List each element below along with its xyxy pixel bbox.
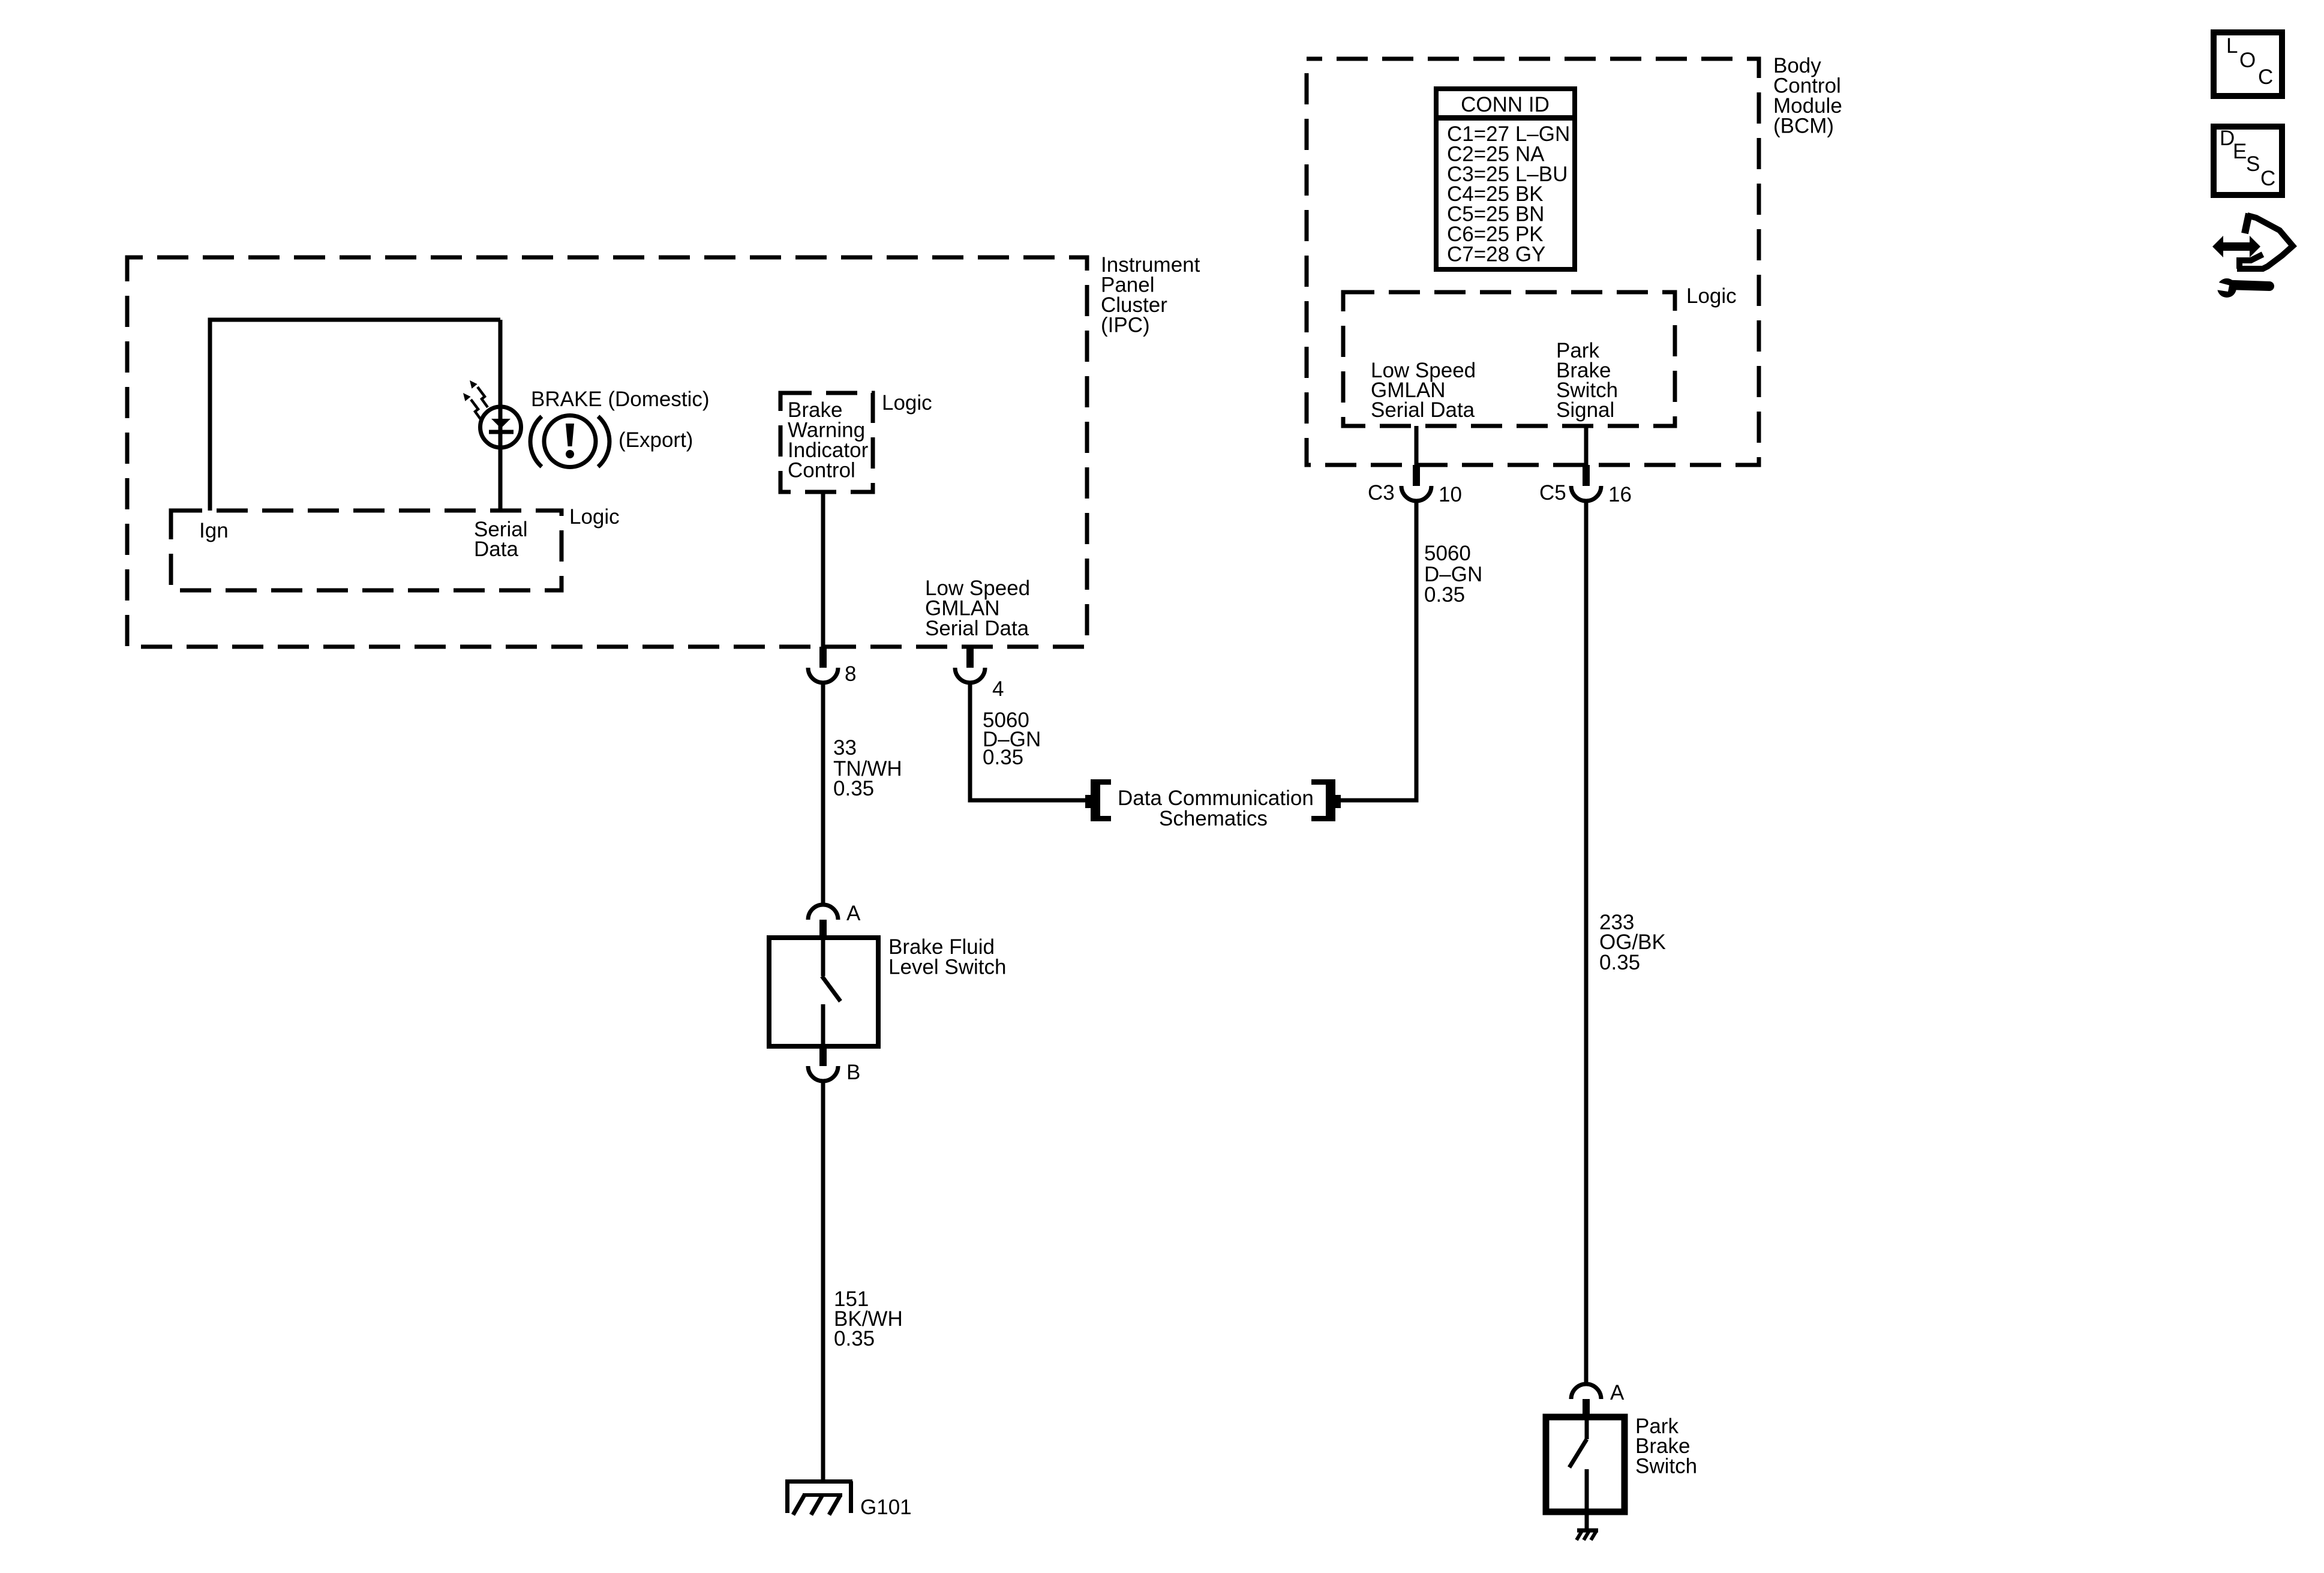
switch S1 contacts and blade xyxy=(821,938,825,976)
DESC legend box xyxy=(2214,127,2282,195)
pin B connector at brake fluid level switch xyxy=(819,1046,827,1066)
legend icon: double-headed arrow xyxy=(2212,236,2260,257)
svg-text:E: E xyxy=(2233,140,2247,163)
svg-text:(IPC): (IPC) xyxy=(1101,314,1150,337)
svg-text:33: 33 xyxy=(833,736,857,760)
module box U2: Body Control Module (dashed outline) xyxy=(1307,59,1759,465)
legend icon: outline arrow pointer xyxy=(2237,214,2293,269)
svg-text:Ign: Ign xyxy=(199,519,229,542)
wire: circuit 5060 D-GN from callout up to BCM pin C3-10 xyxy=(1341,501,1416,803)
ground G101 symbol xyxy=(785,1481,852,1515)
pin C3-10 connector at BCM xyxy=(1413,465,1420,486)
svg-text:O: O xyxy=(2239,49,2256,72)
wire: Ign vertical riser inside IPC xyxy=(208,320,212,511)
switch S1: Brake Fluid Level Switch box xyxy=(769,938,878,1046)
svg-text:C: C xyxy=(2260,167,2275,190)
svg-text:A: A xyxy=(1610,1381,1625,1404)
wire: park brake signal from BCM logic box to pin C5 xyxy=(1584,426,1589,465)
export symbol exclamation bar xyxy=(566,424,574,446)
pin C5-16 connector at BCM xyxy=(1583,465,1590,486)
svg-text:BRAKE (Domestic): BRAKE (Domestic) xyxy=(531,388,710,411)
pin 4 connector at IPC xyxy=(966,647,974,668)
svg-text:Control: Control xyxy=(788,459,855,482)
LED cathode bar xyxy=(489,430,514,434)
export brake symbol: circle with exclamation xyxy=(544,416,596,467)
svg-text:8: 8 xyxy=(845,662,856,686)
svg-text:CONN ID: CONN ID xyxy=(1461,93,1550,116)
svg-text:Logic: Logic xyxy=(882,391,932,415)
wire: horizontal run from Ign riser to BRAKE indicator xyxy=(208,318,501,322)
svg-text:C5: C5 xyxy=(1539,481,1566,505)
svg-text:Level Switch: Level Switch xyxy=(888,956,1006,979)
table header separator xyxy=(1434,115,1577,121)
svg-text:(BCM): (BCM) xyxy=(1773,115,1834,138)
svg-text:10: 10 xyxy=(1439,483,1462,506)
off-page connector left tick xyxy=(1085,795,1091,808)
LOC legend box xyxy=(2214,32,2282,96)
svg-text:Serial Data: Serial Data xyxy=(925,617,1029,640)
wire: circuit 33 TN/WH from pin 8 to brake fluid level switch pin A xyxy=(821,683,825,905)
export symbol right paren arc xyxy=(598,416,609,467)
legend icon: wrench xyxy=(2212,278,2274,298)
off-page connector right bracket xyxy=(1311,779,1335,821)
svg-text:B: B xyxy=(846,1061,860,1084)
svg-text:L: L xyxy=(2226,34,2238,58)
svg-text:Logic: Logic xyxy=(569,505,620,529)
logic box: Brake Warning Indicator Control (dashed) xyxy=(780,393,873,492)
wire: BWIC output down to IPC pin 8 xyxy=(821,492,825,647)
pin A connector at brake fluid level switch xyxy=(808,905,838,920)
module box U1: Instrument Panel Cluster (dashed outline) xyxy=(127,257,1087,647)
switch S2: Park Brake Switch box xyxy=(1546,1417,1625,1512)
export symbol left paren arc xyxy=(530,416,542,467)
svg-text:0.35: 0.35 xyxy=(1599,951,1640,974)
svg-text:Data: Data xyxy=(474,538,518,561)
svg-text:Serial Data: Serial Data xyxy=(1371,398,1475,422)
svg-text:C: C xyxy=(2258,65,2273,89)
wire: circuit 5060 D-GN from pin 4 down and right to data link callout xyxy=(968,683,1086,800)
svg-text:Logic: Logic xyxy=(1686,284,1737,308)
svg-text:4: 4 xyxy=(992,677,1004,701)
export symbol exclamation dot xyxy=(566,450,574,458)
LED light arrow 2 xyxy=(463,393,481,420)
svg-text:0.35: 0.35 xyxy=(1424,583,1465,607)
svg-text:A: A xyxy=(846,902,861,925)
svg-text:C3: C3 xyxy=(1368,481,1395,505)
pin A connector at park brake switch xyxy=(1571,1384,1601,1399)
switch S2 contacts and blade xyxy=(1585,1417,1589,1439)
svg-text:G101: G101 xyxy=(860,1496,912,1519)
wire: circuit 233 OG/BK from BCM pin C5 to park brake switch pin A xyxy=(1584,501,1589,1384)
logic box inside BCM (dashed) xyxy=(1343,292,1675,426)
LED indicator DS1: BRAKE warning lamp circle xyxy=(481,407,521,448)
connector ID table xyxy=(1436,89,1575,269)
svg-text:C7=28 GY: C7=28 GY xyxy=(1447,242,1545,266)
svg-text:Schematics: Schematics xyxy=(1159,807,1268,830)
off-page connector right tick xyxy=(1335,795,1341,808)
svg-text:0.35: 0.35 xyxy=(983,746,1023,769)
wire: BRAKE indicator branch down to Serial Data logic box xyxy=(499,320,503,511)
svg-text:0.35: 0.35 xyxy=(834,1327,875,1350)
off-page connector left bracket xyxy=(1091,779,1111,821)
svg-text:Switch: Switch xyxy=(1635,1455,1697,1478)
svg-text:5060: 5060 xyxy=(1424,542,1471,565)
LED light arrow 1 xyxy=(470,380,488,407)
svg-text:S: S xyxy=(2246,152,2260,176)
svg-text:16: 16 xyxy=(1608,483,1632,506)
pin 8 connector at IPC xyxy=(819,647,827,668)
wire: GMLAN net from BCM logic box to pin C3 xyxy=(1415,426,1419,465)
svg-text:0.35: 0.35 xyxy=(833,777,874,800)
chassis ground symbol (park brake switch) xyxy=(1577,1530,1598,1540)
logic box: Ign / Serial Data (dashed) xyxy=(171,511,562,590)
wire: circuit 151 BK/WH from switch pin B to ground G101 xyxy=(821,1081,825,1479)
wire: park brake switch to chassis ground xyxy=(1585,1512,1589,1529)
svg-text:(Export): (Export) xyxy=(618,428,693,452)
svg-text:Signal: Signal xyxy=(1556,398,1614,422)
LED diode triangle xyxy=(491,419,511,428)
